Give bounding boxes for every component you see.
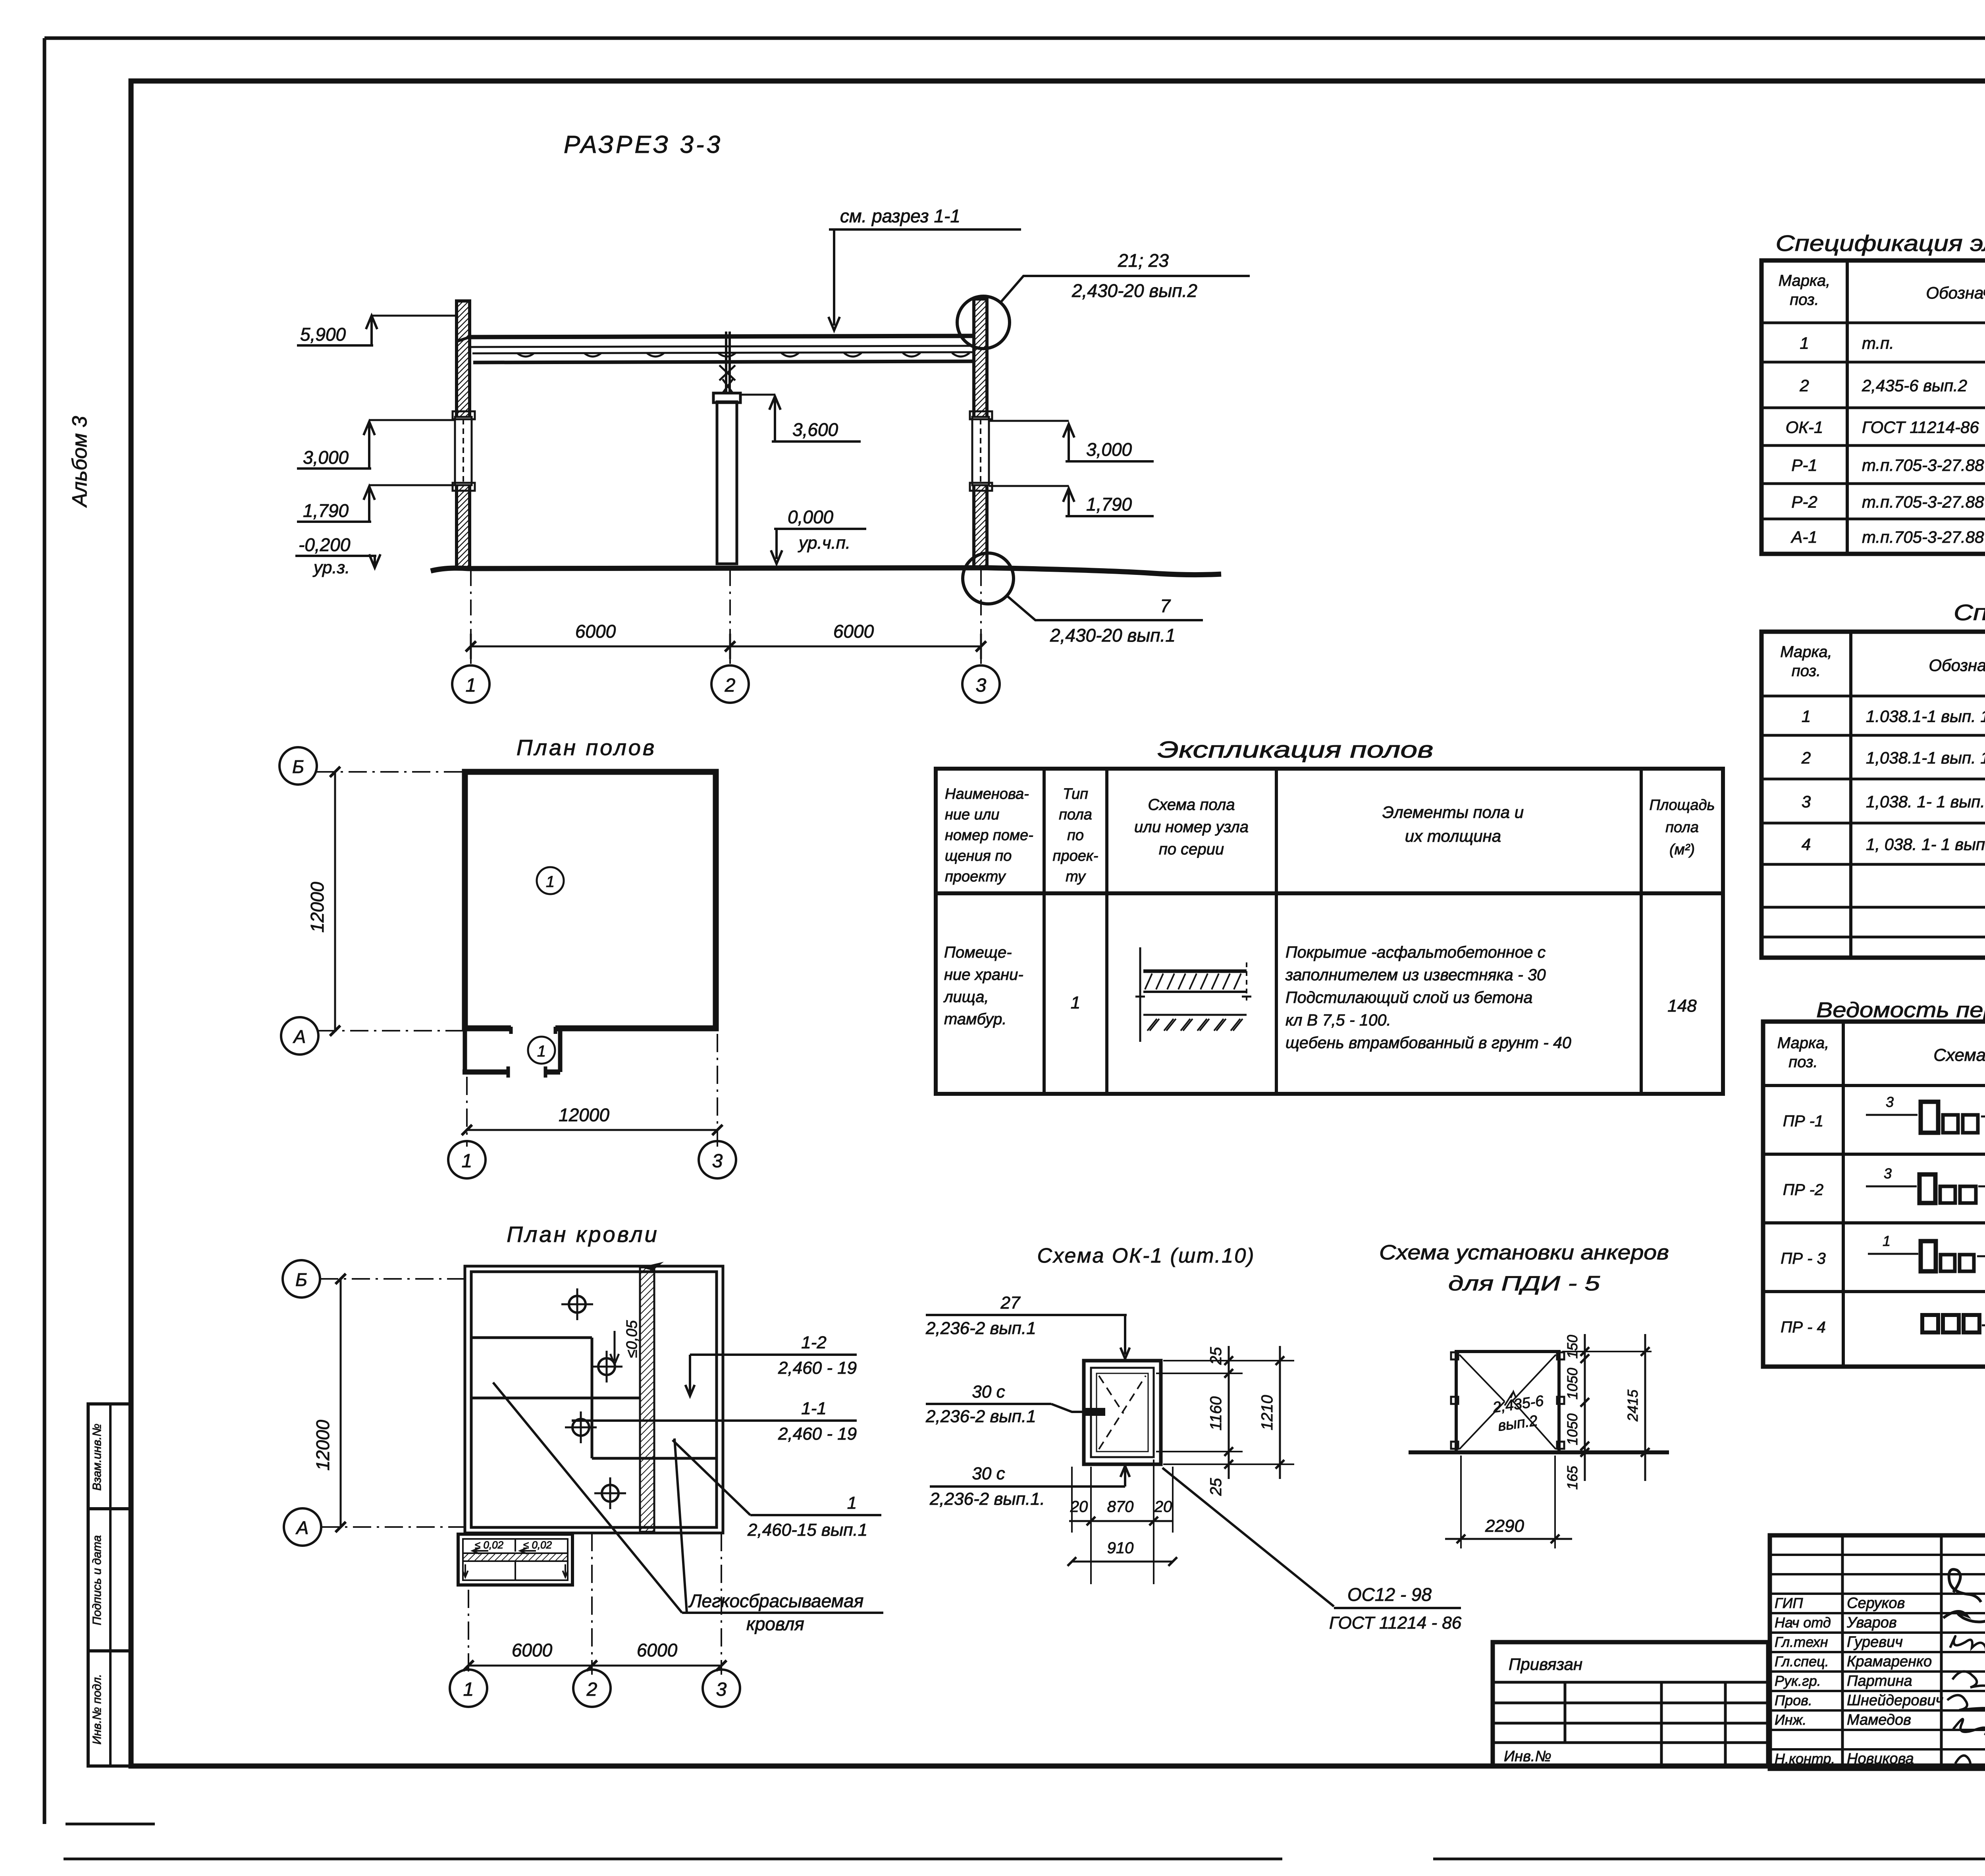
svg-text:1: 1 bbox=[1071, 993, 1080, 1012]
roof plan blast-release strip (hatched) bbox=[640, 1267, 654, 1532]
section axis bubble 3 bbox=[962, 665, 1000, 703]
svg-text:1: 1 bbox=[537, 1043, 546, 1060]
svg-text:2290: 2290 bbox=[1485, 1516, 1524, 1536]
window OK-1 leader ОС12-98 / ГОСТ 11214-86 bbox=[1162, 1468, 1334, 1606]
svg-text:6000: 6000 bbox=[575, 621, 616, 642]
svg-text:1,038. 1- 1 вып. 1: 1,038. 1- 1 вып. 1 bbox=[1866, 792, 1985, 811]
svg-text:Спецификация перемычек: Спецификация перемычек bbox=[1954, 600, 1985, 625]
svg-text:Рук.гр.: Рук.гр. bbox=[1775, 1673, 1821, 1689]
section: roof slab bbox=[470, 336, 974, 337]
svg-text:ОК-1: ОК-1 bbox=[1786, 418, 1823, 437]
svg-text:2,460-15 вып.1: 2,460-15 вып.1 bbox=[747, 1520, 867, 1540]
section axis lines and dimension 6000+6000 bbox=[470, 570, 472, 664]
svg-text:Р-1: Р-1 bbox=[1791, 456, 1817, 474]
roof plan axis Б bbox=[283, 1260, 320, 1298]
window OK-1 frame bbox=[1084, 1361, 1161, 1464]
anchor scheme right dims 150/1050/1050/165 and 2415 bbox=[1562, 1351, 1652, 1352]
svg-text:1,790: 1,790 bbox=[1086, 494, 1132, 515]
svg-text:Нач отд: Нач отд bbox=[1775, 1614, 1831, 1631]
anchor scheme fold diagonals bbox=[1459, 1355, 1505, 1402]
top band with sheet number cell bbox=[131, 79, 1985, 83]
svg-text:3: 3 bbox=[976, 675, 987, 696]
svg-text:ОС12 - 98: ОС12 - 98 bbox=[1347, 1584, 1432, 1605]
section axis bubble 1 bbox=[452, 665, 490, 703]
svg-text:3: 3 bbox=[1884, 1165, 1892, 1182]
svg-text:20: 20 bbox=[1154, 1498, 1172, 1515]
svg-text:2,430-20 вып.1: 2,430-20 вып.1 bbox=[1050, 625, 1176, 646]
roof plan axis bubble 3 bbox=[703, 1670, 740, 1707]
svg-text:1: 1 bbox=[847, 1493, 857, 1513]
svg-text:148: 148 bbox=[1667, 996, 1697, 1016]
svg-text:Подпись и дата: Подпись и дата bbox=[91, 1535, 104, 1625]
svg-text:План кровли: План кровли bbox=[507, 1222, 659, 1247]
section: right wall window opening bbox=[972, 417, 989, 485]
svg-text:30 с: 30 с bbox=[972, 1464, 1005, 1483]
svg-text:1,038.1-1 вып. 1: 1,038.1-1 вып. 1 bbox=[1866, 748, 1985, 767]
svg-text:≤ 0,02: ≤ 0,02 bbox=[475, 1539, 504, 1551]
spec table 1 grid bbox=[1761, 260, 1985, 554]
svg-text:7: 7 bbox=[1160, 596, 1171, 616]
svg-text:12000: 12000 bbox=[307, 882, 328, 933]
svg-text:ние храни-: ние храни- bbox=[944, 966, 1023, 983]
svg-text:Помеще-: Помеще- bbox=[944, 944, 1012, 961]
svg-text:Альбом 3: Альбом 3 bbox=[68, 416, 91, 508]
svg-text:2,460 - 19: 2,460 - 19 bbox=[778, 1424, 857, 1444]
svg-text:870: 870 bbox=[1107, 1498, 1134, 1515]
roof plan tambour roof bbox=[458, 1534, 572, 1585]
floor plan building outline bbox=[465, 772, 716, 1028]
anchor scheme ground line bbox=[1409, 1450, 1669, 1454]
svg-text:Элементы пола и: Элементы пола и bbox=[1382, 803, 1524, 821]
svg-text:Схема пола: Схема пола bbox=[1148, 796, 1235, 814]
svg-text:1: 1 bbox=[463, 1679, 474, 1700]
svg-text:2: 2 bbox=[1801, 748, 1811, 767]
svg-text:1, 038. 1- 1 вып. 1: 1, 038. 1- 1 вып. 1 bbox=[1866, 835, 1985, 854]
margin stamp column bbox=[88, 1404, 131, 1766]
svg-text:Спецификация элементов запо: Спецификация элементов заполнения проемо… bbox=[1776, 231, 1985, 256]
svg-text:165: 165 bbox=[1564, 1465, 1580, 1490]
svg-text:Взам.инв.№: Взам.инв.№ bbox=[91, 1424, 104, 1491]
svg-text:12000: 12000 bbox=[312, 1420, 333, 1471]
svg-text:2: 2 bbox=[1799, 376, 1809, 395]
svg-text:Серуков: Серуков bbox=[1847, 1595, 1905, 1612]
svg-text:1210: 1210 bbox=[1258, 1395, 1276, 1431]
roof plan vent symbols bbox=[569, 1296, 586, 1313]
svg-text:3,000: 3,000 bbox=[1086, 439, 1132, 460]
svg-text:12000: 12000 bbox=[559, 1105, 609, 1125]
svg-text:по серии: по серии bbox=[1159, 841, 1224, 858]
window OK-1 bottom dims 20/870/20 and 910 bbox=[1090, 1467, 1092, 1584]
svg-text:см. разрез 1-1: см. разрез 1-1 bbox=[840, 206, 960, 226]
elevation mark 3,600 bbox=[769, 396, 781, 410]
svg-text:заполнителем из известняка: заполнителем из известняка - 30 bbox=[1285, 966, 1546, 984]
svg-text:Уваров: Уваров bbox=[1846, 1614, 1897, 1631]
svg-text:Гл.техн: Гл.техн bbox=[1775, 1634, 1828, 1650]
floor plan room mark circle 1 (hall) bbox=[537, 867, 564, 894]
section: centre column with hanger rod bbox=[717, 402, 737, 564]
floor plan axis bubble 1 bbox=[448, 1141, 486, 1178]
svg-text:1: 1 bbox=[466, 675, 476, 696]
svg-text:2,435-6 вып.2: 2,435-6 вып.2 bbox=[1862, 376, 1967, 395]
svg-text:Инж.: Инж. bbox=[1775, 1712, 1806, 1728]
svg-text:щебень втрамбованный в грунт: щебень втрамбованный в грунт - 40 bbox=[1285, 1033, 1571, 1052]
svg-text:1050: 1050 bbox=[1564, 1368, 1580, 1400]
anchor scheme door leaf bbox=[1456, 1352, 1559, 1452]
svg-text:27: 27 bbox=[1000, 1293, 1021, 1313]
svg-text:т.п.705-3-27.88 -АРИ-Р-2: т.п.705-3-27.88 -АРИ-Р-2 bbox=[1862, 493, 1985, 511]
svg-text:Привязан: Привязан bbox=[1509, 1655, 1582, 1674]
svg-text:кровля: кровля bbox=[746, 1614, 804, 1634]
svg-text:1050: 1050 bbox=[1564, 1413, 1580, 1445]
roof plan vertical dim 12000 bbox=[340, 1279, 342, 1527]
svg-text:Инв.№: Инв.№ bbox=[1504, 1748, 1551, 1765]
svg-text:20: 20 bbox=[1070, 1498, 1088, 1515]
svg-text:Наименова-: Наименова- bbox=[945, 786, 1029, 802]
svg-text:1-2: 1-2 bbox=[801, 1333, 827, 1352]
svg-text:2,236-2 вып.1: 2,236-2 вып.1 bbox=[925, 1319, 1036, 1338]
floor plan vertical dim 12000 bbox=[334, 772, 336, 1031]
svg-text:для ПДИ - 5: для ПДИ - 5 bbox=[1448, 1272, 1600, 1295]
svg-text:1: 1 bbox=[1883, 1233, 1891, 1249]
svg-text:25: 25 bbox=[1207, 1478, 1225, 1496]
svg-text:1: 1 bbox=[1800, 334, 1809, 353]
floor plan axis Б bbox=[279, 747, 317, 785]
detail circle bottom (node 7) bbox=[963, 553, 1014, 604]
svg-text:1160: 1160 bbox=[1207, 1396, 1225, 1431]
svg-text:Марка,: Марка, bbox=[1777, 1034, 1829, 1052]
svg-text:≤ 0,02: ≤ 0,02 bbox=[523, 1539, 552, 1551]
leader 21;23 / 2,430-20 вып.2 bbox=[1000, 276, 1250, 303]
svg-text:А: А bbox=[293, 1026, 306, 1047]
svg-text:2415: 2415 bbox=[1625, 1389, 1641, 1422]
svg-text:30 с: 30 с bbox=[972, 1382, 1005, 1402]
section: left wall window opening bbox=[455, 417, 472, 485]
svg-text:1: 1 bbox=[1802, 707, 1811, 726]
svg-text:тамбур.: тамбур. bbox=[944, 1010, 1007, 1028]
svg-text:1,790: 1,790 bbox=[303, 500, 349, 521]
svg-text:4: 4 bbox=[1802, 835, 1811, 854]
outer sheet border bbox=[44, 37, 1985, 40]
svg-text:по: по bbox=[1067, 827, 1084, 844]
svg-text:т.п.705-3-27.88 -АРИ-Р-1: т.п.705-3-27.88 -АРИ-Р-1 bbox=[1862, 456, 1985, 474]
svg-text:Гл.спец.: Гл.спец. bbox=[1775, 1653, 1829, 1670]
svg-text:1.038.1-1 вып. 1: 1.038.1-1 вып. 1 bbox=[1866, 707, 1985, 726]
spec table 2 grid bbox=[1761, 632, 1985, 958]
svg-text:2,236-2 вып.1: 2,236-2 вып.1 bbox=[925, 1407, 1036, 1426]
svg-text:Р-2: Р-2 bbox=[1791, 493, 1817, 511]
svg-text:Подстилающий слой из бетона: Подстилающий слой из бетона bbox=[1285, 988, 1532, 1006]
svg-text:Марка,: Марка, bbox=[1780, 643, 1832, 661]
roof plan slab joint lines bbox=[471, 1336, 592, 1339]
svg-text:Экспликация полов: Экспликация полов bbox=[1158, 737, 1434, 763]
svg-text:Б: Б bbox=[292, 756, 304, 777]
svg-text:Тип: Тип bbox=[1063, 786, 1088, 802]
svg-text:ПР - 4: ПР - 4 bbox=[1781, 1319, 1825, 1336]
svg-text:их толщина: их толщина bbox=[1405, 827, 1501, 845]
section axis bubble 2 bbox=[711, 665, 749, 703]
svg-text:3: 3 bbox=[712, 1151, 723, 1172]
svg-text:Инв.№ подл.: Инв.№ подл. bbox=[91, 1674, 104, 1745]
svg-text:Схема установки анкеров: Схема установки анкеров bbox=[1379, 1241, 1669, 1264]
svg-text:ПР -1: ПР -1 bbox=[1783, 1112, 1823, 1130]
svg-text:2,460 - 19: 2,460 - 19 bbox=[778, 1358, 857, 1378]
leader 7 / 2,430-20 вып.1 bbox=[1008, 596, 1203, 620]
svg-text:А: А bbox=[295, 1517, 309, 1538]
svg-text:Схема сечения: Схема сечения bbox=[1933, 1045, 1985, 1065]
section: left wall bbox=[457, 301, 470, 568]
svg-text:21; 23: 21; 23 bbox=[1118, 250, 1169, 271]
svg-text:Схема ОК-1 (шт.10): Схема ОК-1 (шт.10) bbox=[1037, 1244, 1255, 1267]
floor schedule table grid bbox=[936, 769, 1723, 1094]
anchor scheme anchors bbox=[1451, 1352, 1458, 1359]
svg-text:ур.з.: ур.з. bbox=[312, 558, 350, 577]
Привязан attachment box bbox=[1493, 1642, 1768, 1766]
title block signature grid bbox=[1770, 1535, 1985, 1769]
section: right wall bbox=[974, 299, 987, 568]
svg-text:ГОСТ 11214 - 86: ГОСТ 11214 - 86 bbox=[1329, 1613, 1462, 1633]
svg-text:Обозначение: Обозначение bbox=[1929, 656, 1985, 675]
elevation mark 3,000 right bbox=[1063, 424, 1074, 438]
lintel list grid bbox=[1763, 1022, 1985, 1367]
svg-text:3: 3 bbox=[716, 1679, 727, 1700]
svg-text:т.п.: т.п. bbox=[1862, 334, 1894, 353]
svg-text:проек-: проек- bbox=[1053, 848, 1098, 864]
svg-text:ПР -2: ПР -2 bbox=[1783, 1181, 1823, 1199]
svg-text:Н.контр.: Н.контр. bbox=[1775, 1751, 1835, 1767]
svg-text:Легкосбрасываемая: Легкосбрасываемая bbox=[688, 1591, 863, 1611]
svg-text:Новикова: Новикова bbox=[1847, 1751, 1914, 1767]
floor plan bottom dim 12000 bbox=[466, 1077, 468, 1147]
svg-text:ГИП: ГИП bbox=[1775, 1595, 1803, 1611]
svg-text:2,430-20 вып.2: 2,430-20 вып.2 bbox=[1072, 280, 1197, 301]
svg-text:2: 2 bbox=[725, 675, 736, 696]
svg-text:0,000: 0,000 bbox=[788, 507, 834, 527]
svg-text:Мамедов: Мамедов bbox=[1847, 1712, 1911, 1728]
svg-text:6000: 6000 bbox=[637, 1640, 678, 1660]
svg-text:Пров.: Пров. bbox=[1775, 1692, 1812, 1708]
anchor scheme bottom dim 2290 bbox=[1460, 1456, 1462, 1548]
svg-text:Партина: Партина bbox=[1847, 1673, 1912, 1689]
svg-text:≤0,05: ≤0,05 bbox=[624, 1320, 640, 1358]
svg-text:Крамаренко: Крамаренко bbox=[1847, 1653, 1932, 1670]
window OK-1 right dims 25/1160/25 and 1210 bbox=[1163, 1360, 1294, 1361]
svg-text:ние или: ние или bbox=[945, 806, 999, 823]
svg-text:Обозначение: Обозначение bbox=[1926, 283, 1985, 302]
svg-text:пола: пола bbox=[1665, 819, 1699, 836]
floor plan axis bubble 3 bbox=[699, 1141, 736, 1178]
roof plan axis bubble 1 bbox=[450, 1670, 487, 1707]
svg-text:Гуревич: Гуревич bbox=[1847, 1634, 1903, 1650]
floor plan room mark circle 1 (tambour) bbox=[528, 1037, 555, 1064]
svg-text:Площадь: Площадь bbox=[1650, 797, 1715, 814]
svg-text:ур.ч.п.: ур.ч.п. bbox=[798, 533, 850, 553]
svg-text:или номер узла: или номер узла bbox=[1134, 818, 1249, 836]
svg-text:-0,200: -0,200 bbox=[299, 534, 351, 555]
svg-text:6000: 6000 bbox=[833, 621, 874, 642]
section: ground line bbox=[431, 568, 1221, 575]
roof plan bottom dims 6000 6000 bbox=[468, 1590, 469, 1675]
svg-text:проекту: проекту bbox=[945, 868, 1006, 885]
svg-text:лища,: лища, bbox=[943, 988, 989, 1006]
floor plan tambour walls bbox=[463, 1028, 467, 1072]
svg-text:3: 3 bbox=[1886, 1094, 1894, 1110]
svg-text:150: 150 bbox=[1564, 1335, 1580, 1359]
svg-text:Покрытие -асфальтобетонное с: Покрытие -асфальтобетонное с bbox=[1285, 943, 1546, 961]
svg-text:А-1: А-1 bbox=[1790, 528, 1817, 546]
svg-text:1-1: 1-1 bbox=[801, 1399, 827, 1418]
svg-text:3: 3 bbox=[1802, 792, 1811, 811]
signature scribbles bbox=[1949, 1569, 1981, 1602]
roof plan axis bubble 2 bbox=[573, 1670, 611, 1707]
svg-text:поз.: поз. bbox=[1790, 291, 1819, 308]
svg-text:1: 1 bbox=[462, 1151, 472, 1172]
svg-text:План полов: План полов bbox=[516, 735, 656, 760]
svg-text:5,900: 5,900 bbox=[300, 324, 346, 345]
svg-text:ту: ту bbox=[1066, 868, 1086, 885]
svg-text:2: 2 bbox=[586, 1679, 597, 1700]
floor schedule row: floor construction sketch bbox=[1139, 947, 1141, 1042]
elevation mark 1,790 right bbox=[1063, 488, 1074, 502]
svg-text:25: 25 bbox=[1207, 1347, 1225, 1365]
roof plan axis А bbox=[284, 1508, 321, 1546]
svg-text:ПР - 3: ПР - 3 bbox=[1781, 1250, 1825, 1267]
detail circle top (node 21;23) bbox=[957, 296, 1010, 349]
svg-text:т.п.705-3-27.88 - АРИ-А-1: т.п.705-3-27.88 - АРИ-А-1 bbox=[1862, 528, 1985, 546]
svg-text:Б: Б bbox=[295, 1269, 307, 1290]
floor plan axis А bbox=[281, 1017, 318, 1055]
svg-text:3,000: 3,000 bbox=[303, 447, 349, 468]
svg-text:пола: пола bbox=[1059, 806, 1092, 823]
svg-text:щения по: щения по bbox=[945, 848, 1012, 864]
svg-text:3,600: 3,600 bbox=[792, 419, 838, 440]
svg-text:РАЗРЕЗ 3-3: РАЗРЕЗ 3-3 bbox=[564, 131, 723, 158]
svg-text:кл В 7,5 - 100.: кл В 7,5 - 100. bbox=[1285, 1011, 1391, 1029]
svg-text:ГОСТ 11214-86: ГОСТ 11214-86 bbox=[1862, 418, 1979, 437]
roof plan outline bbox=[465, 1266, 723, 1533]
svg-text:Марка,: Марка, bbox=[1779, 272, 1831, 289]
svg-text:поз.: поз. bbox=[1792, 662, 1821, 680]
svg-text:910: 910 bbox=[1107, 1539, 1134, 1557]
svg-text:Шнейдерович: Шнейдерович bbox=[1847, 1692, 1943, 1709]
svg-text:поз.: поз. bbox=[1788, 1053, 1818, 1071]
svg-text:6000: 6000 bbox=[512, 1640, 553, 1660]
svg-text:1: 1 bbox=[546, 873, 555, 891]
svg-text:Ведомость перемычек: Ведомость перемычек bbox=[1816, 998, 1985, 1022]
svg-text:номер поме-: номер поме- bbox=[945, 827, 1033, 844]
svg-text:2,236-2 вып.1.: 2,236-2 вып.1. bbox=[929, 1489, 1045, 1509]
svg-text:(м²): (м²) bbox=[1669, 841, 1695, 858]
